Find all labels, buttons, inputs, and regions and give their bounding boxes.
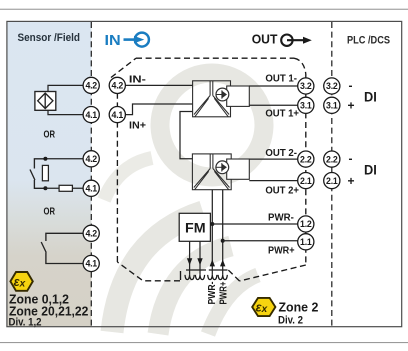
wire OUT1- xyxy=(249,85,298,87)
terminal circles right columns xyxy=(298,78,340,250)
svg-text:2.2: 2.2 xyxy=(300,154,312,164)
terminal 1.2 device xyxy=(298,216,314,232)
terminal 4.2 field c xyxy=(83,225,99,241)
terminal 3.1 plc xyxy=(324,97,340,113)
junction dot PWR+ xyxy=(221,239,225,243)
wire FM to fork 2 xyxy=(199,241,201,275)
svg-text:2.2: 2.2 xyxy=(326,154,338,164)
wire OUT2+ xyxy=(249,180,298,182)
terminal number labels left xyxy=(85,81,123,269)
wire FM to fork 1 xyxy=(189,241,191,275)
svg-text:DI: DI xyxy=(364,90,377,105)
wire link to isolator 2 xyxy=(180,112,193,159)
svg-text:Div. 1,2: Div. 1,2 xyxy=(9,316,42,328)
svg-text:IN: IN xyxy=(105,33,121,49)
OUT symbol xyxy=(252,32,312,46)
svg-text:FM: FM xyxy=(185,220,206,235)
Ex logo left xyxy=(10,272,32,291)
wire isolator2 to fork 4 xyxy=(222,190,224,275)
svg-text:3.1: 3.1 xyxy=(326,101,338,111)
svg-text:4.1: 4.1 xyxy=(85,184,97,194)
sensor2 bottom wire xyxy=(45,187,83,189)
terminal 3.1 device xyxy=(298,97,314,113)
svg-text:4.2: 4.2 xyxy=(85,154,97,164)
boundary step piece left of forks xyxy=(180,271,182,280)
isolator U2 box xyxy=(192,154,249,190)
sensor3 switch xyxy=(41,233,83,263)
wire OUT2- xyxy=(249,158,298,160)
svg-text:OR: OR xyxy=(44,129,56,141)
svg-text:PWR+: PWR+ xyxy=(268,246,295,257)
svg-text:4.2: 4.2 xyxy=(112,81,124,91)
svg-text:PLC /DCS: PLC /DCS xyxy=(347,35,390,47)
terminal 2.2 device xyxy=(298,151,314,167)
wire sensor1 to 4.1 xyxy=(48,110,83,114)
plug fork 4 xyxy=(218,275,227,280)
svg-text:PWR-: PWR- xyxy=(206,281,218,304)
terminal 2.1 plc xyxy=(324,173,340,189)
wire IN- xyxy=(48,85,83,91)
wire PWR+ xyxy=(223,240,299,242)
wire isolator2 to fork 3 xyxy=(211,190,213,275)
arrow up fork4 xyxy=(220,260,225,267)
sensor2 top wire xyxy=(45,158,83,160)
amplifier circle U1 xyxy=(216,88,229,101)
svg-text:OUT 2-: OUT 2- xyxy=(265,148,297,159)
svg-text:IN-: IN- xyxy=(129,74,146,85)
wire IN- device side xyxy=(125,84,192,86)
terminal 4.1 device xyxy=(109,107,125,123)
terminal 4.2 field a xyxy=(83,77,99,93)
terminal 4.2 field b xyxy=(83,151,99,167)
Ex logo right xyxy=(252,298,275,316)
terminal 2.1 device xyxy=(298,173,314,189)
svg-text:Div. 2: Div. 2 xyxy=(278,315,303,327)
svg-text:4.1: 4.1 xyxy=(85,259,97,269)
plug fork 2 xyxy=(195,275,204,280)
svg-text:OUT 1-: OUT 1- xyxy=(265,74,297,85)
junction dot sensor2 top xyxy=(43,157,47,161)
terminal 2.2 plc xyxy=(324,151,340,167)
boundary dash across forks 3-4 xyxy=(209,269,228,271)
svg-text:Zone 2: Zone 2 xyxy=(279,300,319,314)
watermark swirl xyxy=(104,73,264,334)
svg-text:4.2: 4.2 xyxy=(85,229,97,239)
sensor/field blue panel xyxy=(7,22,91,326)
field boundary dashed line xyxy=(90,22,92,327)
isolator U1 box xyxy=(193,81,250,117)
svg-text:4.1: 4.1 xyxy=(112,110,124,120)
svg-text:IN+: IN+ xyxy=(129,121,146,132)
svg-text:OUT 2+: OUT 2+ xyxy=(265,185,299,196)
svg-text:4.1: 4.1 xyxy=(85,110,97,120)
terminal 1.1 device xyxy=(298,234,314,250)
sensor2 switch xyxy=(30,159,45,189)
terminal 4.2 device xyxy=(109,77,125,93)
plug fork 1 xyxy=(185,275,194,280)
junction dot PWR- xyxy=(210,222,214,226)
svg-text:OUT: OUT xyxy=(252,32,278,46)
svg-text:-: - xyxy=(349,152,353,166)
svg-text:-: - xyxy=(349,79,353,93)
boundary dash across forks 1-2 xyxy=(186,269,206,271)
arrow down fork2 xyxy=(197,258,202,265)
amplifier circle U2 xyxy=(216,161,229,174)
terminal circles left column xyxy=(83,77,125,271)
svg-text:1.2: 1.2 xyxy=(300,219,312,229)
svg-text:OUT 1+: OUT 1+ xyxy=(265,109,299,120)
plug fork 3 xyxy=(208,275,217,280)
wire IN+ device side xyxy=(125,104,192,115)
terminal 4.1 field c xyxy=(83,255,99,271)
svg-text:3.2: 3.2 xyxy=(326,81,338,91)
svg-text:Sensor /Field: Sensor /Field xyxy=(18,32,81,44)
device dashed boundary xyxy=(111,58,306,281)
terminal 3.2 plc xyxy=(324,78,340,94)
svg-text:+: + xyxy=(348,99,355,113)
svg-text:PWR+: PWR+ xyxy=(218,282,230,305)
resistor R1 vertical xyxy=(42,165,48,180)
resistor R2 horizontal xyxy=(59,185,72,191)
svg-text:+: + xyxy=(348,174,355,188)
PLC boundary dashed line xyxy=(331,22,333,327)
arrow down fork1 xyxy=(187,258,192,265)
junction dot sensor2 bottom xyxy=(43,186,47,190)
svg-text:2.1: 2.1 xyxy=(326,176,338,186)
bottom rule xyxy=(0,342,408,343)
terminal 4.1 field b xyxy=(83,180,99,196)
svg-text:3.2: 3.2 xyxy=(300,81,312,91)
svg-text:2.1: 2.1 xyxy=(300,176,312,186)
svg-text:3.1: 3.1 xyxy=(300,101,312,111)
wire OUT1+ xyxy=(249,104,298,106)
svg-text:OR: OR xyxy=(44,206,56,218)
svg-text:4.2: 4.2 xyxy=(85,81,97,91)
svg-text:1.1: 1.1 xyxy=(300,237,312,247)
wire PWR- xyxy=(212,223,298,225)
top rule xyxy=(0,9,408,10)
terminal 4.1 field a xyxy=(83,107,99,123)
terminal number labels right xyxy=(300,81,338,247)
terminal 3.2 device xyxy=(298,78,314,94)
svg-text:DI: DI xyxy=(364,163,377,178)
IN symbol xyxy=(105,33,149,49)
FM box xyxy=(179,213,210,241)
svg-text:PWR-: PWR- xyxy=(268,212,294,223)
arrow up fork3 xyxy=(210,260,215,267)
proximity sensor B1 xyxy=(35,92,56,111)
